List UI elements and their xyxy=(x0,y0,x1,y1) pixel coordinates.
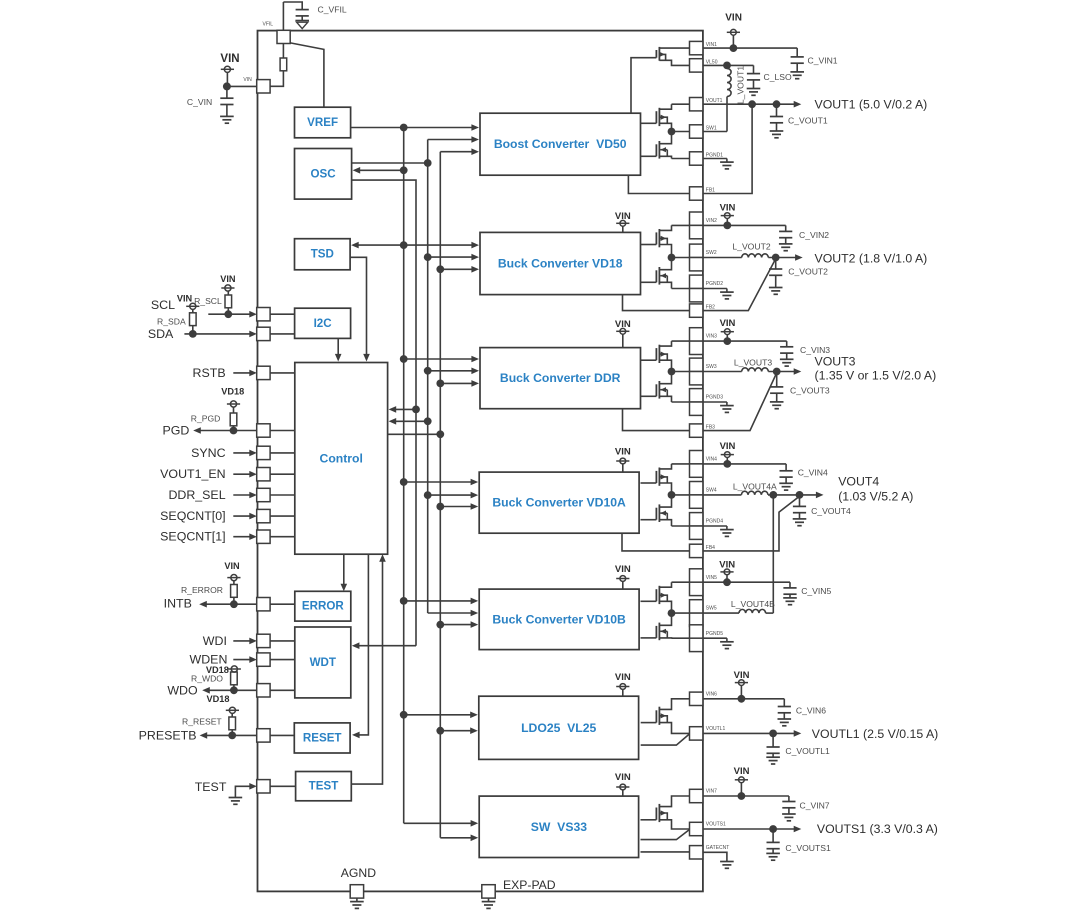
transistor Q1 (boost input switch) xyxy=(658,47,660,61)
wire SW5 external to phase tie xyxy=(703,612,739,614)
wire DDR input 1 xyxy=(404,358,473,360)
junction bus2 Control xyxy=(412,406,420,414)
wire VFIL net xyxy=(283,2,302,10)
svg-text:C_VFIL: C_VFIL xyxy=(318,4,347,14)
pin SCL xyxy=(257,308,270,321)
wire GATECNT external xyxy=(703,852,727,861)
svg-text:VOUT4: VOUT4 xyxy=(838,474,879,488)
junction VOUTL1 xyxy=(769,730,777,738)
wire SW input 1 (bus1 end) xyxy=(404,822,472,824)
wire SW2 external xyxy=(703,257,742,259)
svg-text:VIN5: VIN5 xyxy=(706,575,717,581)
wire PGND1 to pin is in mos_ls xyxy=(672,158,690,160)
wire VOUT1 rail xyxy=(703,103,795,105)
wire I2C to Control xyxy=(337,338,339,355)
block OSC xyxy=(295,149,352,200)
capacitor C_VIN5 with ground xyxy=(789,582,791,588)
pin VIN xyxy=(257,80,270,93)
svg-text:Buck Converter DDR: Buck Converter DDR xyxy=(500,371,621,385)
wire DDR input 3 xyxy=(440,382,472,384)
svg-text:C_VIN4: C_VIN4 xyxy=(798,468,828,478)
svg-text:C_VOUTL1: C_VOUTL1 xyxy=(785,746,830,756)
svg-text:VOUT3: VOUT3 xyxy=(815,355,856,369)
wire WDEN to WDT xyxy=(270,659,295,661)
inductor L_VOUT3 xyxy=(742,368,769,372)
wire VIN3 external xyxy=(703,340,787,342)
wire INTB to ERROR xyxy=(270,603,295,605)
resistor R_SDA xyxy=(190,313,197,326)
pin VIN6 xyxy=(690,692,703,705)
capacitor C_VOUT2 with ground xyxy=(775,258,777,270)
svg-text:LDO25 VL25: LDO25 VL25 xyxy=(521,721,596,735)
svg-text:R_WDO: R_WDO xyxy=(191,674,223,684)
wire OSC output lower to bus2 xyxy=(352,180,416,646)
wire VFIL pin to resistor xyxy=(282,44,284,59)
transistor Q5 (VD18 low-side) xyxy=(658,267,660,285)
svg-text:C_LSO: C_LSO xyxy=(764,72,792,82)
pin SDA xyxy=(257,327,270,340)
resistor R_RESET xyxy=(229,717,236,730)
junction bus1 DDR xyxy=(400,355,408,363)
svg-text:TSD: TSD xyxy=(311,248,334,261)
capacitor C_VOUT1 with ground xyxy=(776,104,778,116)
svg-text:VOUTL1 (2.5 V/0.15 A): VOUTL1 (2.5 V/0.15 A) xyxy=(812,727,938,741)
svg-text:GATECNT: GATECNT xyxy=(706,845,730,851)
junction bus1 LDO25 xyxy=(400,711,408,719)
junction VL50 node xyxy=(723,62,731,70)
wire VIN4 external xyxy=(703,463,786,465)
svg-text:(1.03 V/5.2 A): (1.03 V/5.2 A) xyxy=(838,489,913,503)
pin PGND4 xyxy=(690,513,703,526)
svg-text:VIN1: VIN1 xyxy=(706,42,717,48)
pin SEQCNT[1] xyxy=(257,530,270,543)
svg-text:SEQCNT[1]: SEQCNT[1] xyxy=(160,530,225,544)
wire VOUT1 pin to Q2 xyxy=(672,103,690,105)
ground TEST xyxy=(229,797,243,799)
junction VOUTS1 xyxy=(769,825,777,833)
wire SEQCNT[0] to Control xyxy=(270,515,295,517)
svg-text:Boost Converter VD50: Boost Converter VD50 xyxy=(494,137,627,151)
junction bus4 VD10A xyxy=(436,503,444,511)
wire VD10B input 2 (bus3 end) xyxy=(428,612,472,614)
block WDT xyxy=(295,627,351,698)
capacitor C_VOUTS1 with ground xyxy=(772,829,774,842)
wire SYNC input xyxy=(233,452,251,454)
junction bus1 VD10A xyxy=(400,478,408,486)
wire VIN to pin xyxy=(227,85,257,87)
pin INTB xyxy=(257,598,270,611)
ground PGND2 xyxy=(703,288,727,290)
wire SW1 to pin xyxy=(672,131,690,133)
pin VIN2 xyxy=(690,212,703,225)
wire VD18 input 2 xyxy=(428,256,473,258)
svg-text:VIN6: VIN6 xyxy=(706,692,717,698)
block ERROR xyxy=(295,591,351,621)
svg-text:VIN: VIN xyxy=(615,672,631,683)
capacitor C_VIN xyxy=(226,86,228,98)
wire VD10A input 3 xyxy=(440,506,471,508)
junction R_PGD xyxy=(230,427,238,435)
wire WDO output xyxy=(209,689,257,691)
svg-text:SW VS33: SW VS33 xyxy=(531,820,587,834)
junction VOUT1/FB1 tap xyxy=(748,100,756,108)
wire bus3 vertical with Boost input 2 xyxy=(428,139,473,141)
svg-text:Buck Converter VD18: Buck Converter VD18 xyxy=(498,257,623,271)
svg-text:PGND4: PGND4 xyxy=(706,519,723,525)
svg-text:C_VIN2: C_VIN2 xyxy=(799,230,829,240)
svg-text:TEST: TEST xyxy=(195,780,227,794)
junction bus4 Control xyxy=(436,430,444,438)
ground PGND3 xyxy=(703,401,727,403)
wire VOUT4 phase-combine vertical xyxy=(772,495,774,613)
svg-text:C_VOUT2: C_VOUT2 xyxy=(788,267,828,277)
pin VOUT1 xyxy=(690,98,703,111)
junction VOUT4 / C_VOUT4 xyxy=(796,491,804,499)
wire GATECNT to block xyxy=(641,851,690,853)
junction SW5 node xyxy=(668,609,676,617)
junction R_RESET xyxy=(228,732,236,740)
svg-text:VOUT2 (1.8 V/1.0 A): VOUT2 (1.8 V/1.0 A) xyxy=(815,251,928,265)
inductor L_VOUT1 (vertical) xyxy=(726,65,728,68)
pin GATECNT xyxy=(690,846,703,859)
svg-text:SW2: SW2 xyxy=(706,250,717,256)
wire FB4 external (feedback) xyxy=(703,496,800,551)
ground PGND1 xyxy=(703,158,727,160)
junction R_ERROR xyxy=(230,600,238,608)
wire VD10A input 2 xyxy=(428,494,472,496)
ground C_VFIL (open triangle) xyxy=(295,20,309,22)
svg-text:R_RESET: R_RESET xyxy=(182,716,222,726)
ground GATECNT xyxy=(720,861,734,863)
capacitor C_VFIL xyxy=(296,9,309,11)
svg-text:EXP-PAD: EXP-PAD xyxy=(503,878,556,892)
svg-text:VIN: VIN xyxy=(220,53,239,65)
wire VL50 external xyxy=(703,64,754,66)
junction VOUT4 phase tie xyxy=(769,491,777,499)
pin SYNC xyxy=(257,446,270,459)
wire VOUT4 rail xyxy=(768,494,817,496)
junction VOUT3 xyxy=(773,368,781,376)
pin SW5 xyxy=(690,600,703,613)
wire VIN6 external xyxy=(703,698,784,700)
svg-text:C_VIN3: C_VIN3 xyxy=(800,345,830,355)
svg-text:TEST: TEST xyxy=(309,780,339,793)
svg-text:L_VOUT4B: L_VOUT4B xyxy=(731,599,775,609)
svg-text:FB2: FB2 xyxy=(706,305,715,311)
wire FB2 to VD18 block xyxy=(623,295,690,311)
svg-text:SCL: SCL xyxy=(151,298,175,312)
pin SW3 xyxy=(690,358,703,371)
capacitor C_VIN6 with ground xyxy=(783,699,785,707)
svg-text:PGND5: PGND5 xyxy=(706,631,723,637)
transistor Q8 (VD10A high-side) xyxy=(658,468,660,486)
transistor Q13 (load switch) xyxy=(658,804,660,822)
wire WDT input (bus2 end) xyxy=(357,645,416,647)
wire FB4 to VD10A block xyxy=(622,533,690,551)
junction VOUT1/C_VOUT1 xyxy=(773,100,781,108)
block RESET xyxy=(294,723,350,753)
pin FB3 xyxy=(690,424,703,437)
wire VOUT1_EN input xyxy=(233,473,251,475)
block I2C xyxy=(295,308,351,338)
wire PRESETB output xyxy=(206,734,257,736)
svg-text:VIN: VIN xyxy=(243,77,252,83)
wire VD10B input 3 xyxy=(440,624,471,626)
svg-text:VIN: VIN xyxy=(177,293,193,303)
block Buck Converter VD10B xyxy=(479,589,639,650)
svg-text:I2C: I2C xyxy=(314,317,333,330)
pin WDI xyxy=(257,634,270,647)
wire VREF output to Boost input 1 xyxy=(351,127,473,129)
svg-text:VOUTS1: VOUTS1 xyxy=(706,822,726,828)
pin RSTB xyxy=(257,366,270,379)
block Buck Converter VD10A xyxy=(479,472,639,533)
inductor L_VOUT2 xyxy=(742,254,769,258)
svg-text:L_VOUT2: L_VOUT2 xyxy=(732,241,770,251)
wire SW1 external xyxy=(703,131,727,133)
svg-text:R_ERROR: R_ERROR xyxy=(181,585,223,595)
capacitor C_VOUT3 with ground xyxy=(776,372,778,387)
resistor (VFIL filter) xyxy=(280,58,287,71)
junction bus3 VD18 xyxy=(424,253,432,261)
svg-text:VIN7: VIN7 xyxy=(706,789,717,795)
svg-text:C_VOUTS1: C_VOUTS1 xyxy=(785,843,831,853)
wire Control input 1 from bus2 xyxy=(394,408,416,410)
wire VIN2 external xyxy=(703,224,786,226)
wire resistor to VIN pin xyxy=(270,71,283,87)
wire VOUT1_EN to Control xyxy=(270,473,295,475)
svg-text:SW5: SW5 xyxy=(706,606,717,612)
svg-text:L_VOUT1: L_VOUT1 xyxy=(736,66,746,104)
svg-text:RSTB: RSTB xyxy=(193,366,226,380)
pin WDEN xyxy=(257,653,270,666)
wire bus4 vertical with Boost input 3 xyxy=(440,151,472,153)
svg-text:OSC: OSC xyxy=(311,167,337,180)
wire VIN5 to pin xyxy=(672,581,690,583)
pin VOUTS1 xyxy=(690,822,703,835)
svg-text:VIN: VIN xyxy=(720,318,736,329)
wire VIN2 to pin xyxy=(672,224,690,226)
block LDO25 VL25 xyxy=(479,696,639,759)
wire VD10B input 1 xyxy=(404,600,472,602)
svg-text:VIN: VIN xyxy=(720,203,736,214)
transistor Q12 (LDO pass) xyxy=(658,707,660,725)
wire SDA to I2C xyxy=(270,333,295,335)
svg-text:RESET: RESET xyxy=(303,732,342,745)
power flag VD18 (R_PGD) xyxy=(230,401,236,407)
svg-text:SYNC: SYNC xyxy=(191,446,225,460)
wire Control output to bus4 xyxy=(388,433,441,435)
pin VOUT1_EN xyxy=(257,468,270,481)
wire TSD input / VD18 input 1 xyxy=(357,244,472,246)
svg-text:SEQCNT[0]: SEQCNT[0] xyxy=(160,509,225,523)
wire DDR input 2 xyxy=(428,370,473,372)
pin SW1 xyxy=(690,125,703,138)
block Control xyxy=(295,363,388,555)
wire Control to ERROR xyxy=(343,554,345,585)
junction SW1 node xyxy=(668,128,676,136)
block Buck Converter VD18 xyxy=(480,232,641,294)
transistor Q3 (boost low-side) xyxy=(658,141,660,159)
transistor Q6 (DDR high-side) xyxy=(658,345,660,363)
wire FB3 external (feedback) xyxy=(703,373,777,431)
svg-text:C_VIN: C_VIN xyxy=(187,97,212,107)
capacitor C_VOUT4 with ground xyxy=(799,495,801,507)
pin PGD xyxy=(257,424,270,437)
svg-text:C_VIN1: C_VIN1 xyxy=(808,56,838,66)
wire FB3 to DDR block xyxy=(623,409,690,431)
transistor Q11 (VD10B low-side) xyxy=(658,623,660,641)
wire SEQCNT[1] to Control xyxy=(270,536,295,538)
svg-text:VREF: VREF xyxy=(307,116,338,129)
svg-text:PGND3: PGND3 xyxy=(706,395,723,401)
svg-text:VIN2: VIN2 xyxy=(706,218,717,224)
wire PRESETB to RESET xyxy=(270,734,294,736)
wire SW4 to pin xyxy=(672,494,690,496)
junction VIN input xyxy=(223,82,231,90)
chip boundary xyxy=(258,31,703,892)
wire RSTB input xyxy=(233,372,251,374)
wire Q1 gate to Boost block xyxy=(631,58,656,113)
junction bus4 VD18 xyxy=(436,265,444,273)
svg-text:WDI: WDI xyxy=(203,634,227,648)
svg-text:L_VOUT3: L_VOUT3 xyxy=(734,358,772,368)
junction bus3 Control xyxy=(424,417,432,425)
svg-text:VFIL: VFIL xyxy=(263,21,274,27)
inductor L_VOUT4A xyxy=(741,491,768,495)
wire VIN7 external xyxy=(703,795,789,797)
resistor R_SCL xyxy=(225,295,232,308)
svg-text:Control: Control xyxy=(320,451,363,465)
svg-text:R_PGD: R_PGD xyxy=(191,414,221,424)
pin PGND3 xyxy=(690,389,703,402)
ground AGND xyxy=(356,898,358,902)
wire SW input 2 (bus4 end) xyxy=(440,837,471,839)
svg-text:VIN: VIN xyxy=(615,564,631,575)
junction OSC input / bus1 xyxy=(400,166,408,174)
svg-text:Buck Converter VD10A: Buck Converter VD10A xyxy=(492,496,626,510)
wire SCL to I2C xyxy=(270,313,295,315)
wire VFIL pin to VREF xyxy=(290,43,324,107)
transistor Q9 (VD10A low-side) xyxy=(658,504,660,522)
capacitor C_VIN3 with ground xyxy=(786,341,788,347)
wire OSC input from bus1 xyxy=(358,169,404,171)
wire VD18 input 3 xyxy=(440,268,472,270)
wire VS33 output diagonal xyxy=(641,830,690,840)
wire LDO output diagonal xyxy=(641,734,690,745)
wire VIN5 external xyxy=(703,581,790,583)
junction bus1 VD10B xyxy=(400,597,408,605)
wire VOUT3 rail xyxy=(768,371,795,373)
svg-text:PGND1: PGND1 xyxy=(706,152,723,158)
power flag VIN (R_SCL) xyxy=(225,285,231,291)
junction R_SDA xyxy=(189,330,197,338)
svg-text:VD18: VD18 xyxy=(221,386,244,396)
wire bus1 vertical xyxy=(403,128,405,824)
pin VL50 xyxy=(690,59,703,72)
wire VOUT2 rail xyxy=(768,257,796,259)
svg-text:AGND: AGND xyxy=(341,866,376,880)
junction OSC line / bus3 xyxy=(424,159,432,167)
svg-text:VIN: VIN xyxy=(720,441,736,452)
svg-text:Buck Converter VD10B: Buck Converter VD10B xyxy=(492,612,626,626)
svg-text:INTB: INTB xyxy=(164,597,192,611)
wire LDO25 input 1 xyxy=(404,714,472,716)
junction VREF line / bus1 xyxy=(400,124,408,132)
svg-text:VIN: VIN xyxy=(220,274,236,284)
pin VIN4 xyxy=(690,451,703,464)
wire VIN1 external xyxy=(703,47,797,49)
pin EXP-PAD xyxy=(482,885,495,898)
pin SW2 xyxy=(690,244,703,257)
capacitor C_LSO with ground xyxy=(753,65,755,73)
ground C_VIN xyxy=(220,115,234,117)
wire WDEN input xyxy=(233,659,251,661)
pin VIN1 xyxy=(690,41,703,54)
svg-text:C_VOUT1: C_VOUT1 xyxy=(788,115,828,125)
wire PGD to Control xyxy=(270,430,295,432)
svg-text:VOUT1 (5.0 V/0.2 A): VOUT1 (5.0 V/0.2 A) xyxy=(815,98,928,112)
block VREF xyxy=(295,107,351,138)
wire FB1 to Boost block xyxy=(628,175,689,194)
junction R_WDO xyxy=(230,686,238,694)
svg-text:WDT: WDT xyxy=(310,656,336,669)
wire VIN4 to pin xyxy=(672,463,690,465)
svg-text:VOUTS1 (3.3 V/0.3 A): VOUTS1 (3.3 V/0.3 A) xyxy=(817,822,938,836)
svg-text:C_VIN5: C_VIN5 xyxy=(801,586,831,596)
power flag VD18 (R_WDO) xyxy=(231,666,237,672)
power flag VD18 (R_RESET) xyxy=(229,707,235,713)
svg-text:VD18: VD18 xyxy=(207,694,230,704)
junction bus4 LDO25 xyxy=(436,727,444,735)
pin VIN7 xyxy=(690,789,703,802)
junction VOUT2 xyxy=(772,254,780,262)
transistor Q7 (DDR low-side) xyxy=(658,381,660,399)
block SW VS33 xyxy=(479,796,638,857)
svg-text:(1.35 V or 1.5 V/2.0 A): (1.35 V or 1.5 V/2.0 A) xyxy=(815,369,937,383)
svg-text:R_SCL: R_SCL xyxy=(194,296,222,306)
wire VIN3 to pin xyxy=(672,340,690,342)
wire TEST pin to TEST block xyxy=(270,785,296,787)
wire VD10A input 1 xyxy=(404,481,472,483)
svg-text:SW1: SW1 xyxy=(706,125,717,131)
wire TEST input xyxy=(235,786,251,797)
capacitor C_VIN4 with ground xyxy=(785,464,787,471)
svg-text:SW3: SW3 xyxy=(706,364,717,370)
resistor R_PGD xyxy=(230,413,237,426)
capacitor C_VIN1 with ground xyxy=(796,48,798,57)
pin PGND5 xyxy=(690,625,703,638)
junction TSD line / bus1 xyxy=(400,241,408,249)
svg-text:VOUTL1: VOUTL1 xyxy=(706,726,726,732)
junction bus4 VD10B xyxy=(436,621,444,629)
pin SW4 xyxy=(690,482,703,495)
wire SYNC to Control xyxy=(270,452,295,454)
pin VIN5 xyxy=(690,569,703,582)
wire DDR_SEL input xyxy=(233,494,251,496)
wire INTB output xyxy=(206,603,257,605)
svg-text:VIN: VIN xyxy=(615,446,631,457)
pin WDO xyxy=(257,684,270,697)
capacitor C_VOUTL1 with ground xyxy=(772,733,774,747)
wire VOUTS1 rail xyxy=(703,828,795,830)
block TEST xyxy=(296,772,352,801)
wire FB1 external xyxy=(703,104,752,193)
pin DDR_SEL xyxy=(257,488,270,501)
wire PGD output xyxy=(200,430,257,432)
ground PGND4 xyxy=(703,525,727,527)
svg-text:C_VOUT3: C_VOUT3 xyxy=(790,386,830,396)
